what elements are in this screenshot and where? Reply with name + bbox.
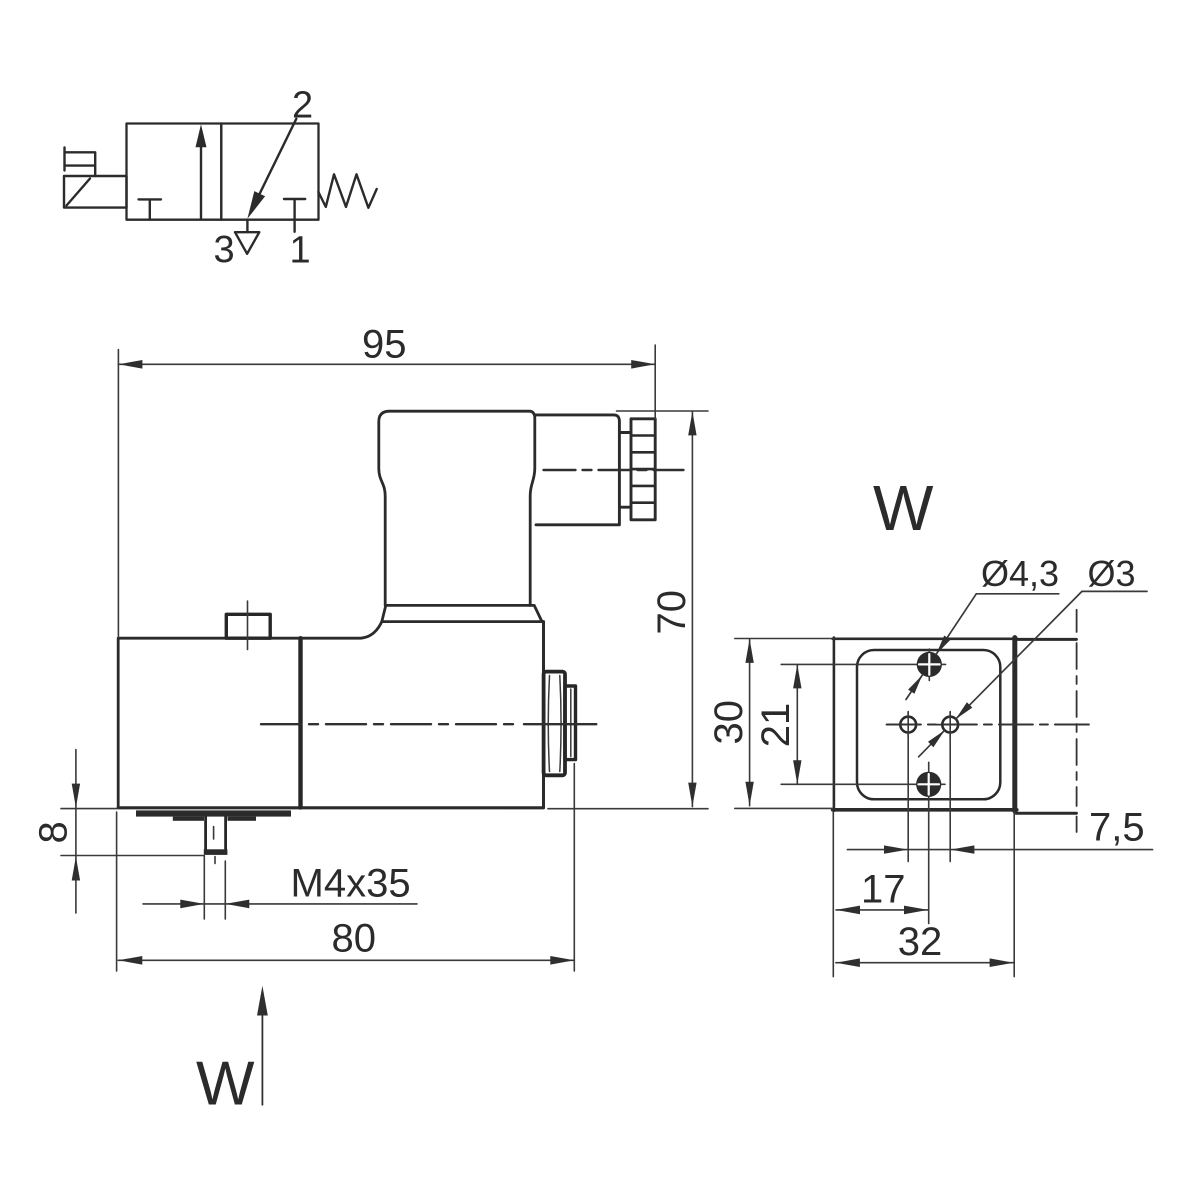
svg-text:2: 2 <box>292 85 313 127</box>
cable gland body <box>631 419 655 520</box>
W flange top edge <box>1016 638 1076 641</box>
svg-text:8: 8 <box>32 821 76 843</box>
dim 21 bottom extension to bottom hole <box>781 783 945 785</box>
dim 70 arrows <box>688 411 696 806</box>
gasket lip right <box>228 817 257 821</box>
svg-text:30: 30 <box>707 700 751 745</box>
view W arrow shaft <box>261 1012 263 1105</box>
small hole right cross <box>949 712 951 738</box>
label D3 tail head <box>928 730 945 747</box>
dim 80 extension lines <box>117 764 575 972</box>
port boss barrel lines <box>548 676 561 772</box>
dim 17 line <box>836 909 928 911</box>
port 2 arrow head <box>247 191 265 219</box>
W square top edge <box>833 637 1017 640</box>
coil skirt <box>382 605 544 621</box>
valve symbol right square <box>221 124 318 220</box>
small hole left cross horizontal <box>887 724 921 726</box>
small hole left cross <box>907 712 909 738</box>
W square left edge <box>833 638 836 811</box>
label D4,3 tail head <box>908 675 922 694</box>
coil outline <box>379 411 535 605</box>
top fitting centerline <box>247 601 249 650</box>
top hole vertical tick <box>928 649 930 681</box>
port boss step2 <box>565 686 576 760</box>
label D4,3 leader <box>936 594 976 654</box>
body bottom edge <box>118 806 543 809</box>
W flange bottom edge <box>1016 812 1076 815</box>
W horizontal centerline <box>887 724 1096 726</box>
svg-text:M4x35: M4x35 <box>291 862 411 906</box>
port boss step2 inner line <box>570 689 572 757</box>
hole centerline vertical small right <box>949 712 951 862</box>
small hole right cross horizontal <box>936 724 968 726</box>
label D4,3 underline <box>976 593 1059 595</box>
W flange dash-dot edge <box>1076 643 1078 806</box>
svg-text:Ø3: Ø3 <box>1088 553 1136 594</box>
flow arrow up shaft <box>200 144 202 220</box>
cable gland knurl lines <box>631 436 655 503</box>
connector centerline <box>544 469 684 471</box>
top hole white cross <box>919 654 940 675</box>
W square right edge thick <box>1012 638 1017 811</box>
port 2 diagonal arrow <box>252 119 297 211</box>
bottom hole vertical tick and centerline <box>928 762 930 923</box>
exhaust triangle <box>235 232 259 254</box>
dim 32 line <box>836 962 1014 964</box>
view W arrow head <box>257 986 268 1016</box>
dim 21 arrows <box>793 664 801 784</box>
body outline left and top <box>118 622 382 808</box>
svg-text:1: 1 <box>290 230 311 272</box>
port boss step1 <box>544 672 565 776</box>
label D4,3 leader head <box>936 636 950 655</box>
dim 8 arrows <box>72 784 80 881</box>
hole centerline vertical small left <box>907 712 909 862</box>
dim 17 arrows <box>836 906 928 915</box>
W flange end ticks <box>1076 610 1078 832</box>
W square bottom edge <box>833 808 1017 812</box>
dim 8 extension lines <box>61 809 204 856</box>
W inner rounded square <box>857 650 1000 799</box>
dim 7,5 line <box>847 849 1152 851</box>
blocked port tee <box>139 199 162 219</box>
dim 30 arrows <box>745 639 753 806</box>
dim 70 line <box>691 411 693 806</box>
connector block <box>535 415 620 525</box>
connector neck <box>620 433 631 508</box>
dim 80 line <box>118 959 574 961</box>
bottom hole filled <box>916 772 941 797</box>
small hole right <box>942 717 958 733</box>
exhaust stem <box>246 220 248 232</box>
flow arrow up head <box>196 124 207 147</box>
svg-text:Ø4,3: Ø4,3 <box>981 553 1059 594</box>
main centerline <box>261 723 516 725</box>
dim 95 arrows <box>118 360 655 369</box>
solenoid box <box>64 176 127 208</box>
svg-text:17: 17 <box>861 868 906 912</box>
small hole left <box>900 717 916 733</box>
dim M4x35 extension lines <box>204 856 225 920</box>
dim 30 line <box>749 639 751 806</box>
dim 80 arrows <box>118 956 574 965</box>
dim 21 line <box>796 664 798 784</box>
screw thread mark <box>213 827 215 840</box>
dim M4x35 arrows <box>180 900 249 909</box>
svg-text:32: 32 <box>898 920 943 964</box>
body thick divider <box>298 638 302 807</box>
solenoid diagonal <box>67 179 91 206</box>
dim 32 extension lines <box>833 812 1014 977</box>
solenoid lead bracket <box>65 148 96 177</box>
svg-text:95: 95 <box>362 323 407 367</box>
mounting gasket band <box>136 810 291 816</box>
dim 8 line <box>75 750 77 914</box>
top hole filled <box>917 652 942 677</box>
gasket lip left <box>173 817 204 821</box>
dim 70 extension lines <box>548 411 708 809</box>
svg-text:3: 3 <box>214 229 235 271</box>
svg-text:80: 80 <box>332 917 377 961</box>
svg-text:W: W <box>196 1050 255 1119</box>
spring <box>318 174 376 208</box>
svg-text:21: 21 <box>754 703 798 748</box>
body right edge <box>542 622 545 808</box>
svg-text:W: W <box>873 472 934 544</box>
dim 30 extension lines <box>735 639 833 809</box>
screw centerline tick <box>214 857 216 864</box>
svg-text:7,5: 7,5 <box>1089 806 1145 850</box>
dim 95 line <box>118 363 655 365</box>
label D3 leader <box>956 591 1082 719</box>
label D4,3 tail <box>906 675 922 699</box>
screw shank <box>206 817 226 849</box>
dim 21 top extension to top hole <box>781 663 945 665</box>
label D3 tail <box>919 730 945 757</box>
label D3 leader head <box>956 702 973 719</box>
dim M4x35 line <box>143 903 417 905</box>
valve symbol left square <box>127 124 222 220</box>
label D3 underline <box>1082 590 1147 592</box>
port 1 tee <box>284 199 305 232</box>
dim 32 arrows <box>836 958 1014 967</box>
top fitting <box>226 614 270 638</box>
dim 7,5 arrows <box>884 845 974 853</box>
dim 95 extension lines <box>118 345 655 637</box>
screw tip <box>204 849 228 855</box>
bottom hole white cross <box>918 774 939 795</box>
svg-text:70: 70 <box>650 590 694 635</box>
